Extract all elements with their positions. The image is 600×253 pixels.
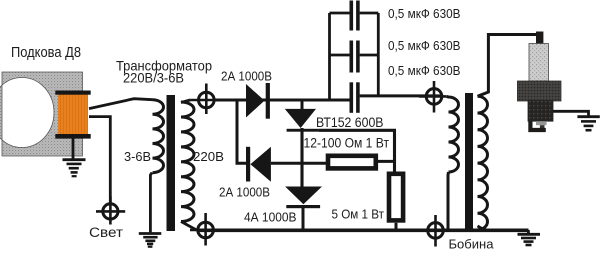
ground at ignition coil bottom — [518, 230, 541, 245]
wire secondary bottom to terminal — [181, 222, 197, 231]
transformer core — [167, 95, 176, 231]
capacitor bank right rail — [377, 13, 380, 96]
ignition coil primary winding — [447, 97, 459, 173]
diode D1 2А 1000В — [246, 83, 270, 119]
svg-text:5 Ом 1 Вт: 5 Ом 1 Вт — [332, 207, 385, 222]
capacitor C1 0,5 мкФ 630В — [330, 1, 379, 31]
capacitor bank left rail — [328, 13, 331, 100]
svg-text:Бобина: Бобина — [449, 237, 495, 252]
terminal ignition coil top — [419, 81, 447, 113]
wire ignition primary bottom to rail — [447, 172, 451, 230]
wire magneto upper tap to transformer primary — [89, 99, 153, 109]
wire R2 bottom to rail — [395, 223, 398, 230]
svg-text:3-6В: 3-6В — [124, 149, 151, 164]
wire BT152 cathode down to D3 — [300, 128, 303, 187]
svg-text:0,5 мкФ 630В: 0,5 мкФ 630В — [388, 64, 461, 78]
svg-text:4А 1000В: 4А 1000В — [244, 211, 297, 225]
transformer primary winding 3-6В — [153, 100, 164, 173]
wire top rail left segment — [214, 99, 350, 102]
thyristor BT152 600В (drawn as diode pointing down) — [285, 109, 319, 132]
diode D2 2А 1000В (pointing left) — [246, 147, 271, 182]
ignition coil core — [465, 93, 473, 231]
magneto coil winding (orange) — [55, 91, 90, 139]
svg-text:220В: 220В — [193, 149, 224, 164]
capacitor C2 0,5 мкФ 630В — [330, 41, 379, 73]
svg-text:0,5 мкФ 630В: 0,5 мкФ 630В — [388, 39, 461, 53]
wire secondary top to terminal — [181, 100, 191, 103]
wire magneto lower tap to lamp — [89, 117, 110, 203]
terminal bottom of transformer secondary — [190, 213, 221, 246]
svg-text:Свет: Свет — [89, 225, 123, 240]
wire D2 anode to resistor R1 — [271, 162, 326, 165]
wire BT152 cathode right then down to R2 — [319, 130, 395, 171]
ground under transformer — [139, 234, 162, 247]
lamp terminal Свет — [96, 197, 125, 225]
svg-text:2А 1000В: 2А 1000В — [221, 70, 272, 84]
diode D3 4А 1000В (pointing down) — [285, 187, 322, 209]
capacitor C3 0,5 мкФ 630В (in series with rail) — [351, 82, 358, 113]
svg-text:Подкова Д8: Подкова Д8 — [11, 45, 81, 61]
magneto horseshoe core — [0, 72, 83, 156]
terminal ignition coil bottom — [421, 215, 452, 247]
resistor R2 5 Ом 1 Вт (vertical) — [389, 174, 403, 221]
terminal top of transformer secondary — [191, 84, 222, 115]
wire secondary bottom to rail — [478, 226, 486, 230]
svg-text:0,5 мкФ 630В: 0,5 мкФ 630В — [388, 7, 461, 21]
wire top rail right segment — [360, 94, 443, 97]
wire spark plug body to ground — [553, 111, 589, 115]
svg-text:12-100 Ом 1 Вт: 12-100 Ом 1 Вт — [304, 136, 390, 151]
wire branch down to diode D2 — [237, 100, 246, 163]
wire magneto coil to ground — [72, 139, 75, 159]
svg-text:220В/3-6В: 220В/3-6В — [123, 70, 184, 86]
ignition coil secondary winding — [478, 96, 488, 230]
spark plug — [517, 32, 561, 131]
svg-text:2А 1000В: 2А 1000В — [219, 186, 270, 200]
wire stub rail to BT152 anode — [301, 100, 304, 110]
wire bottom rail — [197, 229, 529, 233]
wire ignition secondary top to spark plug — [478, 35, 537, 97]
wire R1 right to vertical — [378, 160, 395, 163]
ground under magneto coil — [63, 160, 86, 177]
wire D3 cathode to bottom rail — [302, 208, 305, 230]
svg-text:ВТ152 600В: ВТ152 600В — [316, 115, 384, 130]
resistor R1 12-100 Ом 1 Вт — [328, 156, 376, 169]
wire transformer primary to ground — [150, 173, 152, 233]
transformer secondary winding 220В — [181, 102, 194, 222]
ground at spark plug — [577, 117, 599, 131]
